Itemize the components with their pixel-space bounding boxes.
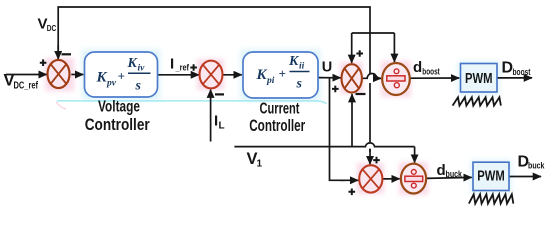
wire S2 to current controller [222,74,242,76]
sign plus at S1 left [40,59,47,66]
wire S1 to voltage controller [71,74,83,76]
svg-text:buck: buck [528,161,545,171]
wire U from current controller to M1 [318,77,341,79]
sign plus at M1 top [356,50,363,57]
sign plus at M2 top [373,157,380,164]
wire arrow into D1 top [393,33,395,62]
summing junction S2 [200,61,223,89]
wire V1 down arrow into D2 top [414,147,416,163]
wire central vertical to M2 top (segmented for hops) [369,33,371,152]
sign minus at M1 bottom [356,93,366,95]
sign plus at S2 left [190,64,197,71]
glow behind current controller box [241,50,321,101]
svg-text:ii: ii [299,62,305,72]
wire PWM buck output D_buck [509,176,541,178]
wire Vdc_ref input [6,74,47,76]
wire top branch header [352,32,395,34]
glow artifact line under controller labels [57,101,327,104]
svg-text:Voltage: Voltage [98,98,140,115]
wire branch U down to M2 left input [330,78,346,181]
svg-text:d: d [413,59,422,76]
wire D1 to PWM boost (d_boost) [410,77,459,79]
sign plus at M2 left [349,189,356,196]
block PWM boost [461,64,498,93]
svg-text:d: d [437,162,446,179]
wire arrow into M1 top [351,33,353,63]
svg-text:K: K [96,70,108,86]
svg-text:boost: boost [422,67,440,77]
wire IL input arrow [210,90,212,142]
wire D2 to PWM buck (d_buck) [426,177,472,178]
svg-text:iv: iv [138,64,146,74]
svg-text:buck: buck [446,169,463,179]
svg-text:pv: pv [106,79,117,89]
glow behind divider D1 [381,61,411,97]
glow artifact arc left end [56,102,66,110]
svg-text:I: I [170,56,174,73]
divider D2 buck [401,164,426,194]
multiplier M2 buck [359,165,382,192]
svg-text:PWM: PWM [477,168,505,184]
sign minus at S2 bottom [215,93,224,95]
sawtooth carrier boost [453,97,501,105]
sign minus at S1 top [62,53,72,55]
svg-text:U: U [322,60,332,76]
wire voltage controller to S2 (I_ref) [158,74,200,76]
wire M1 output with hop over central vertical [362,74,377,79]
sign plus at M1 left [332,86,339,93]
block PWM buck [473,162,509,190]
glow behind divider D2 [399,162,428,195]
svg-text:DC: DC [47,23,57,33]
glow behind summing junction S1 [45,58,74,91]
glow behind multiplier M1 [340,62,363,94]
wire V1 up arrow into M1 bottom [351,94,353,147]
block voltage controller [85,52,158,97]
svg-text:_ref: _ref [175,63,190,74]
svg-text:s: s [296,77,303,92]
svg-text:boost: boost [513,67,531,77]
svg-text:Current: Current [260,101,300,118]
glow behind PWM buck box [471,160,512,193]
wire M2 output to D2 [382,178,400,180]
svg-text:Controller: Controller [249,117,305,135]
svg-text:1: 1 [257,159,263,170]
svg-text:D: D [502,60,514,77]
multiplier M1 boost [342,64,362,92]
block current controller [243,52,318,98]
svg-text:PWM: PWM [465,71,493,87]
glow behind PWM boost box [458,61,500,95]
glow behind summing junction S2 [197,59,224,90]
divider D1 boost [382,63,410,95]
glow behind voltage controller box [82,50,160,100]
svg-text:+: + [118,69,125,84]
wire Vdc arrow into S1 top [57,45,59,59]
wire PWM boost output D_boost [497,77,532,79]
sawtooth carrier buck [469,194,513,203]
svg-text:DC_ref: DC_ref [14,81,39,92]
svg-text:L: L [219,121,225,132]
summing junction S1 [48,60,70,88]
wire Vdc top feedback [58,7,370,58]
svg-text:+: + [279,66,286,81]
glow behind multiplier M2 [357,163,384,194]
svg-text:pi: pi [266,76,275,86]
svg-text:K: K [256,67,268,83]
svg-text:s: s [135,79,142,94]
wire V1 bus with hop over central vertical [234,143,414,147]
svg-text:Controller: Controller [85,116,150,134]
